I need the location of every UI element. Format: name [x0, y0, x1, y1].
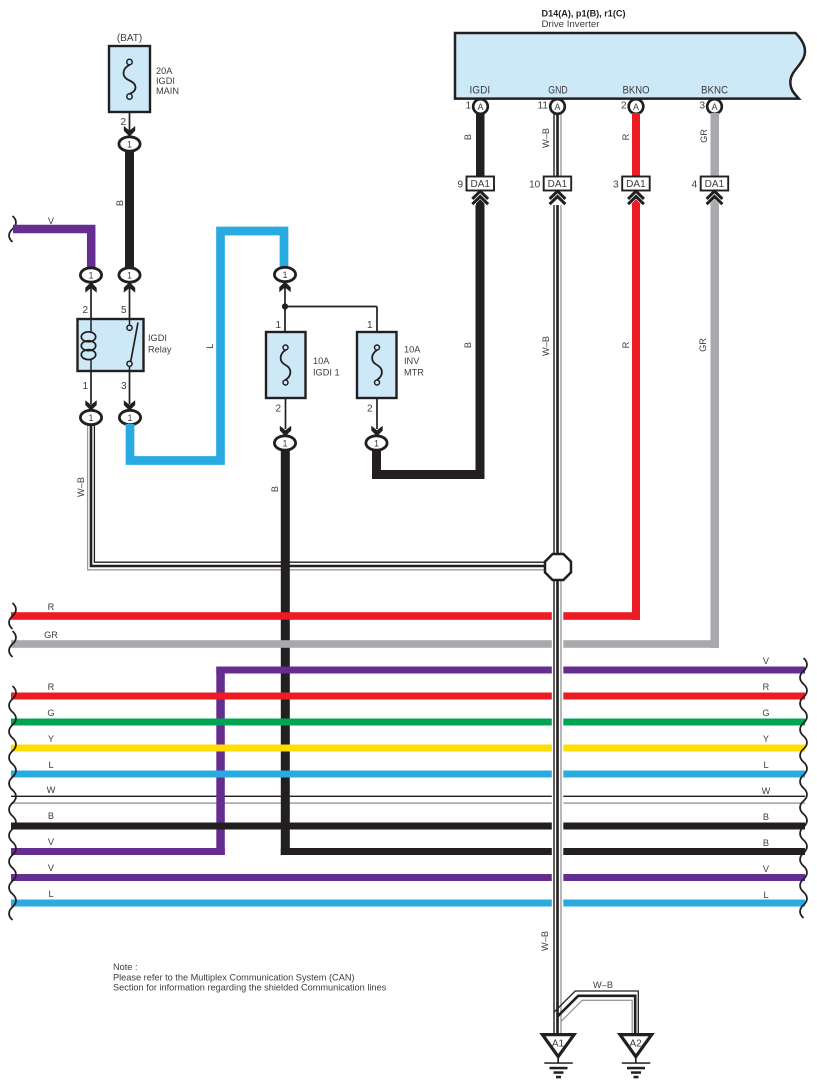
bus row V/B : left purple segment [11, 848, 225, 855]
connector 1 (relay pin 2 side) [80, 268, 101, 282]
connector 9 DA1 [457, 177, 494, 191]
svg-text:B: B [463, 342, 473, 348]
shield octagon node [545, 554, 571, 580]
svg-text:D14(A), p1(B), r1(C): D14(A), p1(B), r1(C) [542, 9, 626, 19]
svg-text:GR: GR [44, 630, 58, 640]
svg-text:Relay: Relay [148, 345, 172, 355]
svg-text:R: R [763, 682, 770, 692]
W row wire (white, bus row 6) [11, 785, 805, 804]
svg-text:Y: Y [48, 734, 54, 744]
pin 3 connector A (BKNC) [699, 99, 721, 114]
svg-text:V: V [48, 216, 55, 226]
svg-text:2: 2 [275, 404, 281, 415]
svg-text:R: R [621, 341, 631, 348]
svg-text:DA1: DA1 [626, 179, 646, 190]
pin 2 connector A (BKNO) [621, 99, 643, 114]
svg-text:9: 9 [457, 180, 463, 191]
svg-text:Y: Y [763, 734, 769, 744]
svg-text:BKNO: BKNO [623, 84, 650, 96]
connector 10 DA1 [529, 177, 571, 191]
svg-text:W–B: W–B [541, 128, 551, 148]
svg-text:R: R [48, 682, 55, 692]
arrow up into connector 1 (relay pin 5) [124, 282, 135, 293]
svg-text:L: L [763, 760, 768, 770]
svg-text:GND: GND [548, 84, 568, 96]
svg-text:1: 1 [127, 140, 132, 150]
pin 2 of fuse 20A [129, 112, 131, 131]
svg-text:1: 1 [465, 101, 471, 112]
svg-text:V: V [763, 864, 770, 874]
svg-text:IGDI: IGDI [148, 333, 167, 343]
svg-text:3: 3 [613, 180, 619, 191]
svg-text:Drive Inverter: Drive Inverter [542, 19, 601, 30]
wire W-B branch to ground A2 [554, 991, 638, 1033]
svg-text:IGDI: IGDI [470, 84, 491, 96]
svg-text:(BAT): (BAT) [117, 33, 142, 44]
svg-text:3: 3 [699, 101, 705, 112]
svg-text:MAIN: MAIN [156, 86, 179, 96]
svg-text:B: B [763, 812, 769, 822]
svg-text:B: B [463, 134, 473, 140]
pin 1 connector A (IGDI) [465, 99, 487, 114]
connector 1 (fuse INV MTR output) [366, 436, 387, 450]
svg-text:W–B: W–B [540, 931, 550, 951]
left edge break squiggle (R wire) [9, 603, 16, 629]
svg-text:1: 1 [275, 320, 281, 331]
left edge break squiggle (GR wire) [9, 631, 16, 657]
connector 1 (below relay pin 3) [119, 410, 140, 424]
fuse 10A INV MTR [357, 332, 424, 398]
svg-text:10A: 10A [404, 345, 421, 355]
left edge break squiggle (V wire) [9, 216, 16, 242]
svg-text:GR: GR [699, 129, 709, 143]
connector 4 DA1 [692, 177, 729, 191]
svg-text:A1: A1 [552, 1039, 565, 1050]
svg-text:V: V [763, 656, 770, 666]
bus row R [11, 693, 805, 700]
Drive Inverter box [455, 33, 805, 99]
svg-text:2: 2 [120, 117, 126, 128]
chevron arrows below DA1 (IGDI) [472, 191, 488, 205]
connector 1 (below relay pin 1) [80, 410, 101, 424]
node junction to both fuses [284, 288, 286, 333]
left edge break squiggle (bus rows) [9, 686, 16, 920]
wire W-B shield jumper from relay pin 1 to shield octagon [88, 423, 546, 570]
svg-text:1: 1 [88, 271, 93, 281]
arrow up into connector 1 (fuse feed) [279, 282, 290, 293]
ground A1 [542, 1035, 574, 1079]
fuse 20A IGDI MAIN [109, 46, 179, 112]
svg-text:2: 2 [367, 404, 373, 415]
svg-text:W: W [47, 785, 56, 795]
bus row Y [11, 745, 805, 752]
svg-text:W–B: W–B [541, 336, 551, 356]
connector 1 (relay pin 5 side) [119, 268, 140, 282]
svg-text:B: B [48, 811, 54, 821]
svg-text:DA1: DA1 [705, 179, 725, 190]
fuse 10A INV MTR pin 2 lead [376, 398, 378, 429]
wire R (BKNO pin to DA1) [632, 113, 640, 177]
svg-text:1: 1 [82, 381, 88, 392]
svg-text:R: R [621, 133, 631, 140]
svg-text:10: 10 [529, 180, 541, 191]
svg-text:L: L [205, 343, 215, 348]
svg-text:R: R [48, 602, 55, 612]
svg-text:L: L [48, 889, 53, 899]
svg-text:G: G [47, 708, 54, 718]
wire L from relay pin 3 to fuses [130, 231, 284, 461]
svg-text:W: W [762, 786, 771, 796]
svg-text:1: 1 [127, 271, 132, 281]
svg-text:1: 1 [367, 320, 373, 331]
relay pin 1 lead [90, 371, 92, 404]
chevron arrows below DA1 (BKNO) [628, 191, 644, 205]
svg-text:Please refer to the Multiplex: Please refer to the Multiplex Communicat… [113, 972, 355, 982]
svg-text:1: 1 [374, 439, 379, 449]
wire B (IGDI pin to DA1) [476, 113, 485, 177]
wire B from DA1 9 down and left to fuse INV MTR output [377, 205, 481, 475]
svg-text:G: G [762, 708, 769, 718]
svg-text:1: 1 [88, 413, 93, 423]
chevron arrows below DA1 (GND) [550, 191, 566, 204]
bus row G [11, 719, 805, 726]
wire B from fuse 20A to relay pin 5 [125, 151, 134, 270]
svg-text:W–B: W–B [593, 980, 613, 990]
bus row V (right portion) [216, 667, 805, 674]
relay IGDI Relay [78, 319, 172, 371]
svg-text:2: 2 [82, 305, 88, 316]
right edge break squiggle (bus rows) [800, 658, 807, 918]
svg-text:11: 11 [538, 101, 549, 112]
chevron arrows below DA1 (BKNC) [707, 191, 723, 205]
svg-text:MTR: MTR [404, 368, 424, 378]
ground A2 [620, 1035, 652, 1079]
wire W-B shielded GND run (main, DA1 to ground A1) [552, 205, 564, 1033]
connector 3 DA1 [613, 177, 650, 191]
wire GR (BKNC pin to DA1) [711, 113, 720, 177]
svg-text:Note :: Note : [113, 962, 138, 972]
svg-text:A: A [477, 102, 483, 112]
bus row L [11, 771, 805, 778]
connector 1 (fuse IGDI 1 output) [274, 436, 295, 450]
svg-text:GR: GR [698, 338, 708, 352]
svg-text:Section for information regard: Section for information regarding the sh… [113, 983, 387, 993]
svg-text:10A: 10A [313, 356, 330, 366]
bus row V/B : right black segment [281, 848, 805, 855]
svg-text:4: 4 [692, 180, 698, 191]
arrow down into connector [124, 126, 135, 137]
pin 11 connector A (GND) [538, 99, 565, 114]
svg-text:5: 5 [121, 305, 127, 316]
svg-text:20A: 20A [156, 66, 173, 76]
svg-text:B: B [115, 200, 125, 206]
bus row B [11, 823, 805, 830]
svg-text:A: A [711, 102, 717, 112]
svg-text:V: V [48, 837, 55, 847]
svg-text:L: L [48, 760, 53, 770]
svg-text:INV: INV [404, 356, 420, 366]
svg-text:3: 3 [121, 381, 127, 392]
svg-text:2: 2 [621, 101, 627, 112]
bus row L (lower) [11, 900, 805, 907]
connector 1 (fuse feed) [274, 267, 295, 281]
wire W-B shielded GND run (top segment, pin 11A to DA1) [552, 113, 564, 177]
fuse 10A IGDI 1 pin 2 lead [285, 398, 287, 429]
svg-text:IGDI: IGDI [156, 76, 175, 86]
connector 1 (BAT fuse output) [119, 137, 140, 151]
svg-text:1: 1 [282, 270, 287, 280]
wire V vertical (purple riser joining V bus rows) [216, 667, 225, 856]
svg-text:A: A [633, 102, 639, 112]
svg-text:1: 1 [282, 439, 287, 449]
wire GR from BKNC: vertical + horizontal to left edge [711, 204, 720, 648]
svg-text:A: A [554, 102, 560, 112]
svg-text:V: V [48, 863, 55, 873]
svg-text:W–B: W–B [76, 477, 86, 497]
arrow up into connector 1 (relay pin 2) [85, 282, 96, 293]
svg-text:DA1: DA1 [470, 179, 490, 190]
svg-text:1: 1 [127, 413, 132, 423]
svg-text:B: B [763, 838, 769, 848]
svg-text:DA1: DA1 [548, 179, 568, 190]
svg-text:BKNC: BKNC [701, 84, 728, 96]
bus row V (lower) [11, 874, 805, 881]
wire B vertical from fuse IGDI 1 down to B bus row [281, 448, 290, 855]
fuse 10A IGDI 1 [266, 332, 340, 398]
svg-text:IGDI 1: IGDI 1 [313, 368, 340, 378]
relay pin 3 lead [129, 371, 131, 404]
svg-text:L: L [763, 890, 768, 900]
svg-text:B: B [270, 486, 280, 492]
svg-text:A2: A2 [629, 1039, 642, 1050]
wire V from left edge to relay pin 2 [13, 229, 91, 269]
wire R from BKNO: vertical + horizontal to left edge [632, 204, 640, 620]
